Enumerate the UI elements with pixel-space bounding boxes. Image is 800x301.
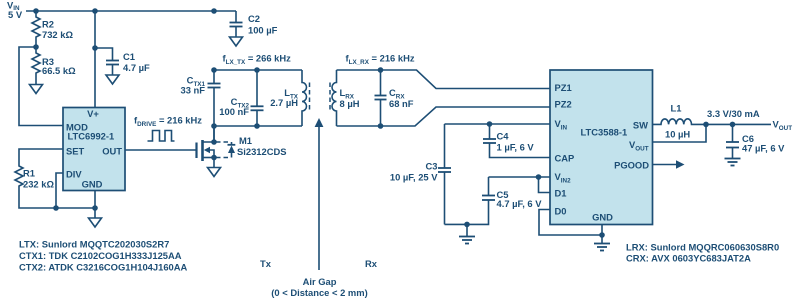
svg-text:V+: V+ xyxy=(87,108,99,119)
svg-text:47 µF, 6 V: 47 µF, 6 V xyxy=(742,143,785,154)
svg-text:LTX: Sunlord MQQTC202030S2R7: LTX: Sunlord MQQTC202030S2R7 xyxy=(19,239,169,250)
svg-text:SW: SW xyxy=(633,120,648,131)
svg-text:C4: C4 xyxy=(497,131,510,142)
svg-text:232 kΩ: 232 kΩ xyxy=(23,179,54,190)
svg-text:100 nF: 100 nF xyxy=(219,106,249,117)
svg-text:732 kΩ: 732 kΩ xyxy=(42,29,73,40)
svg-text:Si2312CDS: Si2312CDS xyxy=(237,146,287,157)
svg-text:D1: D1 xyxy=(555,188,567,199)
svg-text:Tx: Tx xyxy=(260,258,272,269)
svg-text:SET: SET xyxy=(66,146,85,157)
svg-text:PZ2: PZ2 xyxy=(555,99,572,110)
svg-text:LTC3588-1: LTC3588-1 xyxy=(581,127,628,138)
svg-text:D0: D0 xyxy=(555,206,567,217)
svg-text:4.7 µF, 6 V: 4.7 µF, 6 V xyxy=(497,198,543,209)
svg-text:PGOOD: PGOOD xyxy=(614,160,649,171)
svg-text:10 µF, 25 V: 10 µF, 25 V xyxy=(390,171,438,182)
svg-text:OUT: OUT xyxy=(102,146,122,157)
svg-text:LRX: Sunlord MQQRC060630S8R0: LRX: Sunlord MQQRC060630S8R0 xyxy=(626,242,779,253)
svg-text:5 V: 5 V xyxy=(8,9,23,20)
svg-text:R1: R1 xyxy=(23,168,35,179)
svg-text:1 µF, 6 V: 1 µF, 6 V xyxy=(497,142,535,153)
svg-text:CTX2: ATDK C3216COG1H104J160AA: CTX2: ATDK C3216COG1H104J160AA xyxy=(19,262,188,273)
svg-text:8 µH: 8 µH xyxy=(340,98,360,109)
svg-text:LTC6992-1: LTC6992-1 xyxy=(68,131,115,142)
svg-text:Rx: Rx xyxy=(365,258,378,269)
svg-text:CTX1: TDK C2102COG1H333J125AA: CTX1: TDK C2102COG1H333J125AA xyxy=(19,250,182,261)
svg-text:R2: R2 xyxy=(42,19,54,30)
svg-text:C1: C1 xyxy=(123,51,135,62)
svg-text:3.3 V/30 mA: 3.3 V/30 mA xyxy=(707,108,760,119)
svg-text:Air Gap: Air Gap xyxy=(303,276,337,287)
svg-text:4.7 µF: 4.7 µF xyxy=(123,62,150,73)
svg-text:C2: C2 xyxy=(248,13,260,24)
svg-text:CRX: AVX 0603YC683JAT2A: CRX: AVX 0603YC683JAT2A xyxy=(626,253,751,264)
svg-text:L1: L1 xyxy=(671,103,682,114)
svg-text:(0 < Distance < 2 mm): (0 < Distance < 2 mm) xyxy=(271,287,367,298)
svg-text:2.7 µH: 2.7 µH xyxy=(270,97,298,108)
svg-text:68 nF: 68 nF xyxy=(389,98,414,109)
svg-text:10 µH: 10 µH xyxy=(665,129,690,140)
svg-text:PZ1: PZ1 xyxy=(555,82,572,93)
svg-text:C3: C3 xyxy=(426,160,438,171)
svg-text:CAP: CAP xyxy=(555,153,575,164)
svg-text:100 µF: 100 µF xyxy=(248,25,278,36)
svg-text:GND: GND xyxy=(82,179,103,190)
svg-text:GND: GND xyxy=(592,212,613,223)
svg-text:M1: M1 xyxy=(239,135,252,146)
svg-text:66.5 kΩ: 66.5 kΩ xyxy=(42,65,76,76)
svg-text:33 nF: 33 nF xyxy=(181,85,206,96)
svg-text:DIV: DIV xyxy=(66,169,82,180)
